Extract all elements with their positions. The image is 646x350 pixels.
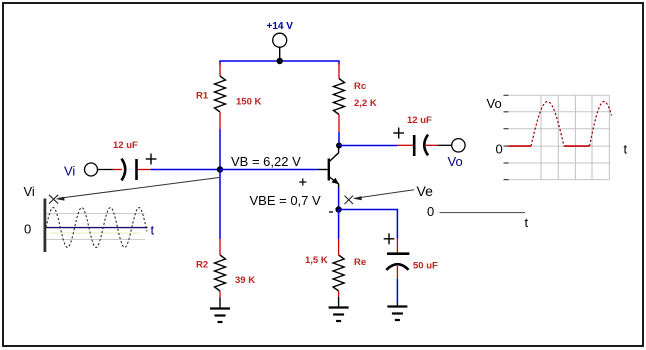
svg-text:t: t (525, 215, 529, 230)
capacitor C1 12uF input (98, 159, 151, 181)
label 1,5 K (305, 255, 328, 266)
svg-text:2,2 K: 2,2 K (354, 98, 377, 109)
plus sign input cap (146, 154, 157, 165)
terminal Vo (452, 139, 465, 152)
wire emitter node to Re (338, 210, 340, 240)
supply terminal +14V (273, 33, 287, 58)
label Vi terminal (64, 164, 75, 179)
label 150 K (236, 97, 261, 108)
callout arrow Ve to emitter (353, 190, 414, 200)
label Ve (417, 183, 434, 199)
node supply junction (277, 58, 283, 64)
svg-text:R1: R1 (196, 91, 209, 102)
minus sign VBE (329, 211, 333, 213)
svg-text:Vi: Vi (24, 184, 35, 199)
ground bypass cap (387, 303, 407, 320)
label 0 Vo plot (496, 142, 503, 157)
wire input cap to base node (151, 169, 220, 171)
label +14 V (267, 21, 294, 32)
grid Vo horizontal lines (509, 95, 610, 179)
resistor R2 (215, 239, 226, 297)
line Ve flat (440, 212, 526, 214)
label 39 K (235, 275, 255, 286)
wire top rail (220, 61, 339, 65)
svg-text:Vi: Vi (64, 164, 75, 179)
wire R1 to base node (219, 129, 221, 170)
plus sign bypass cap (384, 233, 395, 244)
svg-text:39 K: 39 K (235, 275, 255, 286)
axis bar Vi plot (44, 199, 47, 253)
wire base node to transistor (220, 169, 318, 171)
resistor R1 (215, 63, 226, 129)
curve Vo flat segment 2 (564, 145, 590, 147)
svg-text:150 K: 150 K (236, 97, 261, 108)
svg-text:0: 0 (427, 204, 434, 219)
svg-text:Vo: Vo (487, 96, 502, 111)
grid Vo axis ticks (504, 95, 509, 179)
plus sign output cap (393, 128, 404, 139)
gridline Vi lower (46, 239, 145, 241)
node collector junction (336, 143, 342, 149)
resistor Rc (334, 63, 345, 132)
capacitor C3 50uF bypass (386, 239, 409, 279)
ground R2 (210, 297, 230, 322)
curve Vo flat segment 1 (509, 145, 532, 147)
svg-text:0: 0 (24, 222, 31, 237)
svg-text:12 uF: 12 uF (113, 140, 138, 151)
label 12 uF input (113, 140, 138, 151)
wire collector to output cap (339, 145, 398, 147)
wire bypass cap to ground (396, 279, 398, 303)
grid Vo vertical lines (541, 95, 609, 179)
resistor Re (333, 239, 344, 297)
wire Rc to collector node (338, 132, 340, 146)
gridline Vi upper (46, 213, 145, 215)
ground emitter resistor (329, 297, 349, 321)
wire base node to R2 (219, 170, 221, 240)
sine wave Vi (46, 208, 147, 248)
svg-text:R2: R2 (196, 260, 208, 271)
svg-text:Ve: Ve (417, 183, 434, 199)
terminal Vi (85, 163, 98, 176)
svg-text:1,5 K: 1,5 K (305, 255, 328, 266)
label VB = 6,22 V (231, 154, 301, 169)
callout arrow VB to Vi axis (55, 178, 219, 201)
label Vo plot (487, 96, 502, 111)
svg-text:12 uF: 12 uF (407, 115, 432, 126)
svg-text:VBE = 0,7 V: VBE = 0,7 V (250, 193, 322, 208)
label VBE = 0,7 V (250, 193, 322, 208)
wire emitter to node (338, 188, 340, 210)
label Vo terminal (448, 154, 463, 169)
axis time Vi plot (46, 227, 147, 229)
svg-text:50 uF: 50 uF (413, 261, 438, 272)
svg-text:t: t (624, 142, 628, 157)
label Re (354, 257, 366, 268)
label 0 Vi plot (24, 222, 31, 237)
node base junction VB (217, 166, 223, 172)
marker X on Vi axis (49, 195, 58, 204)
svg-text:Rc: Rc (354, 81, 366, 92)
label R1 (196, 91, 209, 102)
svg-text:VB = 6,22 V: VB = 6,22 V (231, 154, 301, 169)
node emitter junction (335, 206, 341, 212)
label R2 (196, 260, 208, 271)
wire emitter node to bypass cap (339, 210, 398, 239)
gridline Vi pale yellow (50, 232, 140, 234)
svg-text:Re: Re (354, 257, 366, 268)
label 2,2 K (354, 98, 377, 109)
curve Vo bump 2 (590, 102, 612, 147)
label t Vo plot (624, 142, 628, 157)
curve Vo bump 1 (531, 102, 564, 147)
label 0 Ve (427, 204, 434, 219)
label t Vi plot (151, 223, 155, 238)
label t Ve (525, 215, 529, 230)
label Rc (354, 81, 366, 92)
capacitor C2 12uF output (398, 135, 452, 156)
svg-text:t: t (151, 223, 155, 238)
plus sign VBE (299, 178, 306, 185)
label 50 uF (413, 261, 438, 272)
marker X on emitter (345, 196, 354, 204)
svg-text:0: 0 (496, 142, 503, 157)
svg-text:Vo: Vo (448, 154, 463, 169)
transistor Q1 (318, 146, 339, 189)
svg-text:+14 V: +14 V (267, 21, 294, 32)
label Vi plot (24, 184, 35, 199)
label 12 uF output (407, 115, 432, 126)
